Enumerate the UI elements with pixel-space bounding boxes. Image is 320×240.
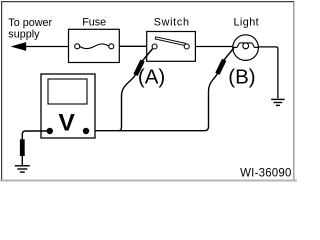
voltmeter terminal dot left	[47, 128, 53, 134]
border frame right	[293, 2, 295, 180]
ground left	[15, 166, 30, 172]
probe B body	[217, 60, 224, 74]
voltmeter V1 display	[48, 79, 87, 104]
voltmeter V1 case	[41, 74, 95, 138]
voltmeter terminal dot right	[83, 128, 89, 134]
probe A tip	[142, 49, 152, 62]
fuse F1 box	[69, 29, 120, 62]
wire voltmeter left terminal to ground lead	[22, 131, 50, 140]
svg-text:V: V	[59, 109, 76, 136]
border frame bottom	[0, 179, 297, 181]
svg-text:Switch: Switch	[154, 16, 190, 28]
ground lead thick element	[20, 139, 25, 156]
fuse F1 element	[75, 44, 114, 49]
switch S1 box	[147, 32, 196, 62]
wire arrow to fuse	[25, 46, 69, 48]
label "To power supply"	[8, 17, 52, 41]
ground right	[271, 99, 284, 105]
border frame top	[1, 1, 294, 3]
svg-text:WI-36090: WI-36090	[240, 167, 291, 179]
wire probe A to bottom wire	[118, 75, 135, 131]
wire light to right ground	[258, 47, 278, 99]
switch S1 contacts and lever	[152, 37, 189, 49]
probe B tip	[224, 48, 234, 61]
svg-text:(B): (B)	[228, 65, 255, 88]
svg-text:(A): (A)	[138, 65, 165, 88]
svg-text:Light: Light	[233, 17, 259, 29]
wire fuse to switch	[119, 45, 146, 47]
wire thick element to left ground	[21, 156, 23, 165]
svg-text:Fuse: Fuse	[82, 17, 106, 29]
arrow to power supply	[11, 42, 27, 51]
svg-text:To power: To power	[8, 17, 52, 29]
border frame left	[1, 1, 3, 180]
probe A body	[136, 61, 143, 75]
wire switch to light	[195, 46, 233, 48]
svg-text:supply: supply	[8, 29, 40, 41]
wire probe B down and across to voltmeter	[86, 74, 217, 131]
lamp L1	[233, 35, 259, 61]
